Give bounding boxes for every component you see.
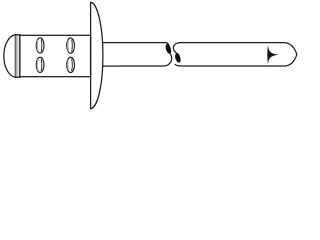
bottom-right oval [67, 57, 75, 72]
rivet body outline [20, 35, 91, 76]
break symbol teardrop (left) [166, 44, 172, 54]
shaded band (rivet head rim) [15, 35, 20, 77]
mandrel tip fin (black) [267, 44, 279, 65]
mandrel top line (left piece) [103, 43, 169, 45]
mandrel bottom line (left piece) [103, 53, 172, 66]
band bottom edge [15, 76, 20, 78]
bottom-left oval [36, 57, 44, 72]
rivet dome head (left half-ellipse) [4, 35, 16, 77]
flange domed profile (right bulge) [91, 2, 103, 108]
band right edge [19, 35, 21, 77]
mandrel top line (right piece) [173, 43, 179, 54]
band top edge [15, 34, 20, 36]
flange left edge [90, 2, 92, 108]
top-left oval [36, 38, 44, 53]
blind rivet technical drawing [0, 0, 300, 111]
break symbol teardrop (right) [175, 53, 181, 63]
oval dimples [36, 38, 74, 73]
dome flat edge [14, 35, 16, 77]
top-right oval [67, 38, 75, 53]
